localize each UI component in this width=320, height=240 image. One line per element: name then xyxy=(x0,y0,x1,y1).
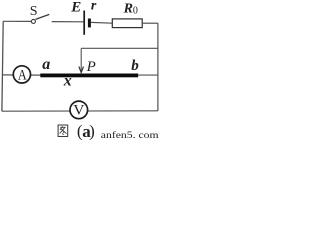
slider P branch horizontal wire xyxy=(81,47,158,49)
slider arrow head at P xyxy=(79,67,84,73)
ammeter branch wire from left rail to slide wire xyxy=(2,74,40,76)
svg-text:0: 0 xyxy=(133,5,138,16)
wire top-left from left rail to switch xyxy=(3,20,31,22)
svg-text:E: E xyxy=(70,0,81,15)
battery short thick plate (negative) r xyxy=(88,19,91,28)
switch S pivot circle xyxy=(31,19,35,23)
slider P vertical wire xyxy=(80,48,82,72)
bottom wire with voltmeter xyxy=(2,110,158,112)
wire b end to right rail xyxy=(138,74,158,76)
switch S lever blade xyxy=(36,14,50,19)
battery long plate (positive) xyxy=(83,11,85,35)
left rail wire xyxy=(2,21,3,111)
svg-text:a: a xyxy=(42,56,50,73)
svg-text:x: x xyxy=(63,73,72,90)
wire switch to battery xyxy=(52,21,84,23)
svg-text:anfen5. com: anfen5. com xyxy=(101,130,160,141)
svg-text:V: V xyxy=(73,102,84,118)
svg-text:R: R xyxy=(123,2,133,17)
svg-text:P: P xyxy=(86,59,96,75)
wire battery to resistor R0 xyxy=(91,21,112,24)
voltmeter V circle xyxy=(70,101,88,119)
right rail wire xyxy=(157,23,159,111)
svg-text:r: r xyxy=(91,0,97,14)
caption hanzi TU (figure) drawn strokes xyxy=(58,125,68,137)
slide wire bar a-b xyxy=(40,74,138,78)
ammeter A circle xyxy=(13,66,30,83)
svg-text:S: S xyxy=(30,4,38,19)
svg-text:): ) xyxy=(89,122,95,141)
svg-text:A: A xyxy=(18,67,27,83)
wire R0 to right rail xyxy=(142,22,158,24)
svg-text:b: b xyxy=(131,58,139,74)
resistor R0 box xyxy=(112,19,142,28)
